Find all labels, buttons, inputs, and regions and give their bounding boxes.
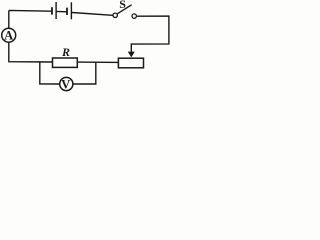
switch S left contact circle: [113, 13, 117, 17]
wire: voltmeter right side back up to main wire junction: [73, 62, 95, 84]
battery cell 2 positive plate (tall thin): [70, 2, 72, 19]
wire: voltmeter branch, down from junction then right to voltmeter: [40, 61, 60, 84]
battery cell 1 positive plate (tall thin): [55, 2, 57, 19]
svg-text:V: V: [61, 77, 70, 91]
rheostat slider arrowhead: [128, 52, 135, 58]
wire: ammeter top, up left side, along top to battery: [9, 10, 52, 27]
svg-text:R: R: [61, 45, 70, 59]
wire: battery to switch: [72, 13, 113, 16]
switch S right contact circle: [132, 14, 136, 18]
ammeter A: [2, 28, 16, 42]
wire between battery cells: [56, 10, 66, 12]
wire: switch to top-right corner, down right side, left and down to rheostat slider: [131, 16, 169, 52]
battery cell 2 negative plate (short thick): [66, 8, 68, 15]
resistor R box: [53, 58, 78, 67]
svg-text:S: S: [119, 0, 126, 11]
wire: ammeter bottom, down left side, along bottom to resistor R: [9, 43, 53, 62]
wire: resistor R to rheostat left terminal: [77, 61, 119, 63]
switch S lever: [118, 5, 132, 14]
voltmeter V: [60, 77, 73, 91]
svg-text:A: A: [4, 29, 13, 43]
battery cell 1 negative plate (short thick): [51, 7, 53, 14]
rheostat box: [118, 58, 143, 68]
